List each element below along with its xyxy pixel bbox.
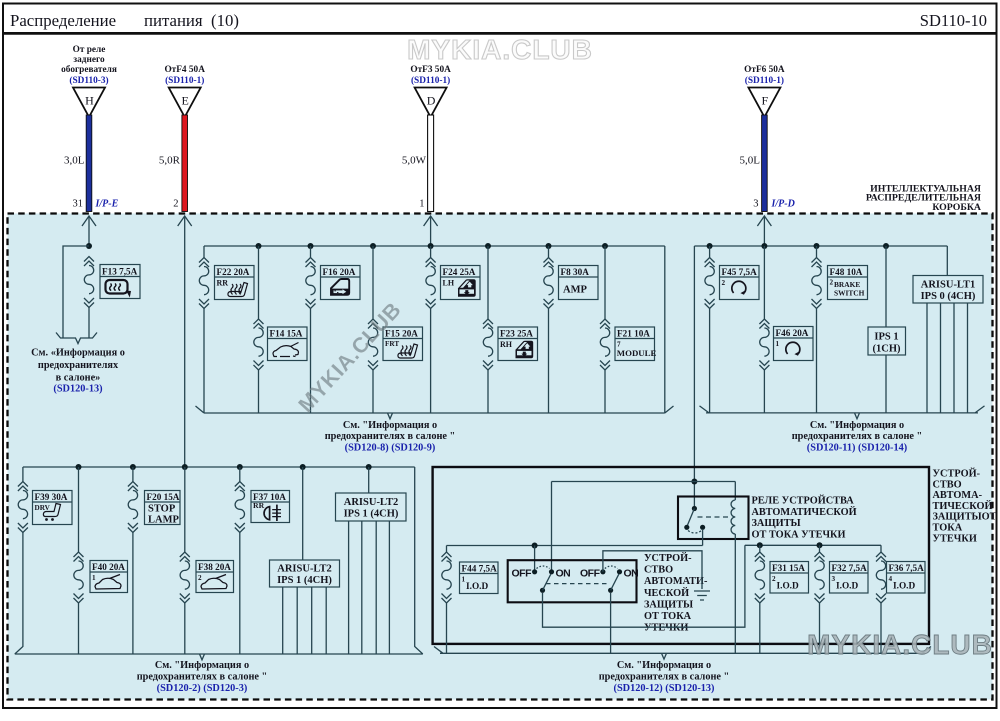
svg-text:DRV: DRV <box>35 504 51 512</box>
svg-text:ОтF4 50A: ОтF4 50A <box>164 65 205 75</box>
wire F inside box <box>763 217 765 246</box>
wire IPS1 output <box>885 355 887 413</box>
connector E label: ОтF4 50A <box>164 65 205 86</box>
fuse F21 label box <box>615 327 657 361</box>
wire 5,0R red from E <box>182 115 188 212</box>
svg-text:ТОКА: ТОКА <box>933 523 963 534</box>
svg-text:I.O.D: I.O.D <box>466 582 488 592</box>
svg-text:5,0R: 5,0R <box>159 155 181 167</box>
wire relay coil to bottom bus <box>734 534 736 653</box>
svg-text:УСТРОЙ-: УСТРОЙ- <box>933 468 981 480</box>
fuse F48 label box <box>828 266 868 300</box>
wire H inside box <box>88 217 90 246</box>
fuse F8 label box <box>559 266 599 300</box>
svg-text:ARISU-LT2: ARISU-LT2 <box>277 564 331 575</box>
svg-text:(1CH): (1CH) <box>873 344 901 355</box>
svg-text:(SD110-1): (SD110-1) <box>745 75 784 86</box>
node E feed <box>182 464 188 470</box>
svg-text:заднего: заднего <box>73 55 105 65</box>
svg-text:3,0L: 3,0L <box>64 155 85 167</box>
svg-text:FRT: FRT <box>385 340 399 348</box>
svg-text:IPS 1 (4CH): IPS 1 (4CH) <box>277 575 332 586</box>
leakage protector outer box <box>433 467 929 644</box>
ground <box>694 591 710 600</box>
fuse F44 7,5A column <box>446 546 448 654</box>
svg-text:H: H <box>85 94 94 108</box>
svg-text:OFF: OFF <box>580 568 601 580</box>
fuse F22 label box <box>215 266 255 300</box>
svg-text:LH: LH <box>443 279 455 288</box>
svg-text:F22 20A: F22 20A <box>217 267 250 277</box>
svg-text:F8 30A: F8 30A <box>561 267 590 277</box>
rear fog lamp icon <box>264 505 281 521</box>
svg-text:ЗАЩИТЫ: ЗАЩИТЫ <box>644 599 693 610</box>
svg-text:5,0L: 5,0L <box>740 155 761 167</box>
svg-text:СТВО: СТВО <box>933 479 962 490</box>
svg-text:СТВО: СТВО <box>644 565 673 576</box>
fuse F38 20A column <box>184 467 186 654</box>
fuse F44 label box <box>460 562 499 594</box>
node H junction <box>86 243 92 249</box>
svg-text:1: 1 <box>776 340 780 348</box>
fuse F16 20A column <box>310 246 312 413</box>
svg-text:(SD110-1): (SD110-1) <box>165 75 204 86</box>
svg-text:(SD120-12) (SD120-13): (SD120-12) (SD120-13) <box>614 683 715 694</box>
svg-text:1: 1 <box>92 574 96 582</box>
svg-text:См. "Информация о: См. "Информация о <box>810 420 904 431</box>
svg-text:РЕЛЕ УСТРОЙСТВА: РЕЛЕ УСТРОЙСТВА <box>752 495 855 507</box>
svg-text:(SD110-1): (SD110-1) <box>411 75 450 86</box>
fuse F13 7,5A <box>84 257 94 308</box>
svg-text:ОТ ТОКА УТЕЧКИ: ОТ ТОКА УТЕЧКИ <box>752 529 846 540</box>
svg-text:2: 2 <box>722 279 726 287</box>
connector F label: ОтF6 50A <box>744 65 785 86</box>
wire down to switch OFF 1 <box>534 546 536 572</box>
svg-text:IPS 1 (4CH): IPS 1 (4CH) <box>344 509 399 520</box>
wire switch1 output to IOD bus <box>543 545 745 627</box>
connector E triangle <box>169 88 201 118</box>
fuse F23 25A column <box>487 246 489 413</box>
svg-text:F36 7,5A: F36 7,5A <box>889 563 925 573</box>
svg-text:АВТОМА-: АВТОМА- <box>933 490 983 501</box>
svg-text:RR: RR <box>253 501 265 510</box>
svg-text:См. «Информация о: См. «Информация о <box>31 348 125 359</box>
svg-text:E: E <box>182 94 189 108</box>
svg-text:IPS 0 (4CH): IPS 0 (4CH) <box>921 291 976 302</box>
svg-text:F13 7,5A: F13 7,5A <box>102 267 138 277</box>
svg-text:ЗАЩИТЫ: ЗАЩИТЫ <box>752 518 801 529</box>
fuse F20 15A column <box>132 467 134 654</box>
svg-text:MODULE: MODULE <box>617 348 657 358</box>
svg-text:(SD120-11) (SD120-14): (SD120-11) (SD120-14) <box>807 442 907 453</box>
bottom bus of leakage box <box>434 647 931 660</box>
wire H entry arrow into box <box>82 216 96 226</box>
bus brace under F13 group <box>56 333 97 344</box>
wire F44 rail <box>447 545 703 547</box>
fuse F14 label box <box>268 327 308 361</box>
connector H label: От реле заднего обогревателя <box>61 45 117 86</box>
fuse F46 label box <box>774 327 814 361</box>
svg-text:SWITCH: SWITCH <box>834 289 865 298</box>
relay РЕЛЕ УСТРОЙСТВА АВТОМАТИЧЕСКОЙ ЗАЩИТЫ ОТ ТОКА УТЕЧКИ <box>678 497 749 540</box>
IOD bus F31/F32/F36 <box>745 544 881 546</box>
svg-text:предохранителях в салоне ": предохранителях в салоне " <box>792 431 923 442</box>
switch box УСТРОЙСТВО АВТОМАТИЧЕСКОЙ ЗАЩИТЫ ОТ ТОКА УТЕЧКИ <box>508 560 639 602</box>
svg-text:F: F <box>762 94 769 108</box>
fuse F31 label box <box>770 562 809 594</box>
label УСТРОЙСТВО АВТОМАТИЧЕСКОЙ ЗАЩИТЫ ТОКА УТЕЧКИ (right of box) <box>933 468 997 545</box>
svg-text:ARISU-LT2: ARISU-LT2 <box>344 497 398 508</box>
module ARISU-LT2 IPS 1 (4CH) lower <box>270 560 340 587</box>
fuse F15 20A column <box>372 246 374 413</box>
svg-text:AMP: AMP <box>563 285 587 296</box>
svg-text:31: 31 <box>73 199 84 210</box>
svg-text:F31 15A: F31 15A <box>772 563 805 573</box>
nodes on right top bus <box>707 243 713 249</box>
svg-text:(SD120-13): (SD120-13) <box>53 384 102 395</box>
fuse F45 label box <box>720 266 760 300</box>
wire to IPS 1 (1CH) <box>885 246 887 327</box>
svg-text:SD110-10: SD110-10 <box>920 11 987 30</box>
svg-text:D: D <box>427 94 436 108</box>
node switch feed <box>532 543 538 549</box>
relay actuation dashed link <box>698 516 730 518</box>
top bus of interior-fuse group <box>204 245 665 247</box>
fuse F22 20A column <box>203 246 205 413</box>
svg-text:2: 2 <box>830 279 834 287</box>
fuse F48 10A column <box>816 246 818 413</box>
bottom bus of lower-left fuse group <box>15 654 423 660</box>
svg-text:ARISU-LT1: ARISU-LT1 <box>921 280 975 291</box>
svg-text:F14 15A: F14 15A <box>270 329 303 339</box>
right edge wire of lower-left group <box>415 467 423 654</box>
svg-text:См. "Информация о: См. "Информация о <box>343 420 437 431</box>
wire E inside box down to lower-left bus <box>184 217 186 467</box>
fuse F16 label box <box>321 266 361 300</box>
connector F triangle <box>748 88 780 118</box>
dashed smart junction box (ИНТЕЛЛЕКТУАЛЬНАЯ РАСПРЕДЕЛИТЕЛЬНАЯ КОРОБКА) <box>8 214 993 700</box>
heated mirror icon <box>106 280 132 298</box>
wire F entry arrow into box <box>757 216 771 226</box>
svg-text:ЗАЩИТЫОТ: ЗАЩИТЫОТ <box>933 512 997 523</box>
fuse F13 label box <box>100 265 140 299</box>
wire 5,0L blue from F <box>762 115 768 212</box>
svg-text:От реле: От реле <box>73 45 106 55</box>
module IPS 1 (1CH) <box>868 327 906 355</box>
svg-text:АВТОМАТИЧЕСКОЙ: АВТОМАТИЧЕСКОЙ <box>752 506 857 518</box>
fuse F40 label box <box>90 561 128 593</box>
wire to ARISU-LT1 <box>946 246 948 276</box>
relay arm <box>686 509 694 529</box>
reference text SD120-11 SD120-14 <box>792 420 923 454</box>
relay label text <box>752 495 857 541</box>
fuse F21 10A column <box>604 246 606 413</box>
wire feed down to leakage protector <box>693 246 695 509</box>
svg-text:1: 1 <box>419 199 424 210</box>
wire left branch of F13 group <box>63 246 89 338</box>
reference text SD120-2 SD120-3 <box>137 660 268 694</box>
svg-text:F39 30A: F39 30A <box>35 492 68 502</box>
fuse F14 15A column <box>258 246 260 413</box>
svg-text:2: 2 <box>173 199 178 210</box>
top bus of lower-left fuse group <box>23 466 415 468</box>
connector D label: ОтF3 50A <box>410 65 451 86</box>
fuse F24 25A column <box>430 246 432 413</box>
svg-text:RH: RH <box>500 340 513 349</box>
relay contacts <box>684 525 689 530</box>
svg-text:F32 7,5A: F32 7,5A <box>832 563 868 573</box>
fuse F46 20A column <box>763 246 765 413</box>
svg-text:OFF: OFF <box>512 568 533 580</box>
top bus of right fuse group <box>694 245 947 247</box>
wire relay contact to F44 rail <box>702 529 704 546</box>
fuse F39 label box <box>33 491 73 525</box>
wire 3,0L blue from H <box>86 115 92 212</box>
svg-text:I.O.D: I.O.D <box>777 582 799 592</box>
relay contact dashed arc <box>688 531 702 534</box>
svg-text:F48 10A: F48 10A <box>830 267 863 277</box>
fuse F37 10A column <box>239 467 241 654</box>
fuse F31 15A column <box>759 545 761 653</box>
relay pivot <box>692 506 697 511</box>
svg-text:ТИЧЕСКОЙ: ТИЧЕСКОЙ <box>933 500 993 512</box>
fuse F20 label box <box>145 491 181 526</box>
wire feed rail to switch and relay coil <box>552 482 736 572</box>
fuse F15 label box <box>383 327 423 361</box>
wire D inside box <box>430 217 432 246</box>
svg-text:ОТ ТОКА: ОТ ТОКА <box>644 611 692 622</box>
wire switch2 OFF to ground <box>603 551 702 589</box>
wire D entry arrow into box <box>424 216 438 226</box>
svg-text:I/P-D: I/P-D <box>771 199 795 210</box>
svg-text:ОтF3 50A: ОтF3 50A <box>410 65 451 75</box>
switch label text <box>644 552 708 634</box>
svg-text:I.O.D: I.O.D <box>893 582 915 592</box>
connector H triangle <box>73 88 105 118</box>
svg-text:F45 7,5A: F45 7,5A <box>722 267 758 277</box>
bottom bus of right fuse group <box>700 406 985 419</box>
svg-text:RR: RR <box>217 279 229 288</box>
svg-text:ON: ON <box>556 568 571 580</box>
fuse F8 30A column <box>548 246 550 413</box>
svg-text:(SD110-3): (SD110-3) <box>69 75 108 86</box>
svg-text:LAMP: LAMP <box>148 515 179 526</box>
nodes on lower-left top bus <box>76 464 82 470</box>
svg-text:F21 10A: F21 10A <box>617 329 650 339</box>
svg-text:См. "Информация о: См. "Информация о <box>617 660 711 671</box>
relay coil <box>731 500 735 534</box>
svg-text:предохранителях в салоне ": предохранителях в салоне " <box>325 431 456 442</box>
svg-text:ЧЕСКОЙ: ЧЕСКОЙ <box>644 587 689 599</box>
fuse F40 20A column <box>78 467 80 654</box>
svg-text:F20 15A: F20 15A <box>147 492 180 502</box>
fuse F23 label box <box>498 327 538 361</box>
svg-text:(10): (10) <box>211 11 239 30</box>
fuse F24 label box <box>441 266 481 300</box>
fuse F36 label box <box>887 562 926 594</box>
svg-text:2: 2 <box>198 574 202 582</box>
svg-text:I/P-E: I/P-E <box>95 199 119 210</box>
svg-text:обогревателя: обогревателя <box>61 64 117 75</box>
right edge wire of interior-fuse group <box>664 246 666 413</box>
svg-text:F46 20A: F46 20A <box>776 328 809 338</box>
switch mechanical dashed link <box>546 583 607 585</box>
svg-text:УСТРОЙ-: УСТРОЙ- <box>644 552 692 564</box>
svg-text:MYKIA.CLUB: MYKIA.CLUB <box>807 629 993 660</box>
svg-text:ON: ON <box>624 568 639 580</box>
svg-text:4: 4 <box>889 575 893 583</box>
svg-text:5,0W: 5,0W <box>402 155 427 167</box>
node feed junction <box>691 479 697 485</box>
door lock icon <box>331 279 349 295</box>
svg-text:F16 20A: F16 20A <box>323 267 356 277</box>
svg-text:Распределение: Распределение <box>10 11 116 30</box>
reference text SD120-13 <box>31 348 125 395</box>
svg-text:КОРОБКА: КОРОБКА <box>932 202 981 213</box>
node F feed <box>761 243 767 249</box>
svg-text:I.O.D: I.O.D <box>836 582 858 592</box>
svg-text:ОтF6 50A: ОтF6 50A <box>744 65 785 75</box>
svg-text:MYKIA.CLUB: MYKIA.CLUB <box>407 34 593 65</box>
module ARISU-LT2 IPS 1 (4CH) upper <box>336 493 407 521</box>
svg-text:1: 1 <box>462 576 466 584</box>
wires ARISU-LT1 outputs <box>927 303 968 413</box>
svg-text:STOP: STOP <box>148 504 176 515</box>
wires ARISU-LT2 upper outputs <box>349 521 390 654</box>
fuse F38 label box <box>196 561 234 593</box>
svg-text:питания: питания <box>144 11 203 30</box>
fuse F37 label box <box>251 491 290 523</box>
svg-text:предохранителях: предохранителях <box>38 360 119 371</box>
fuse F32 label box <box>830 562 869 594</box>
svg-text:См. "Информация о: См. "Информация о <box>155 660 249 671</box>
svg-text:в салоне»: в салоне» <box>56 373 101 384</box>
wires ARISU-LT2 lower outputs <box>283 587 327 654</box>
svg-text:(SD120-8) (SD120-9): (SD120-8) (SD120-9) <box>345 442 436 453</box>
svg-text:IPS 1: IPS 1 <box>874 332 898 343</box>
reference text SD120-8 SD120-9 <box>325 420 456 454</box>
fuse F32 7,5A column <box>819 545 821 653</box>
svg-text:3: 3 <box>832 575 836 583</box>
header rule <box>3 32 997 35</box>
wire 5,0W white from D <box>428 115 434 212</box>
wire switch2 output to bottom bus <box>610 593 612 653</box>
svg-text:УТЕЧКИ: УТЕЧКИ <box>644 623 688 634</box>
svg-text:F38 20A: F38 20A <box>198 562 231 572</box>
svg-text:F40 20A: F40 20A <box>92 562 125 572</box>
svg-text:2: 2 <box>772 575 776 583</box>
reference text SD120-12 SD120-13 <box>599 660 730 694</box>
fuse F39 30A column <box>15 467 23 654</box>
node D feed <box>428 243 434 249</box>
svg-text:АВТОМАТИ-: АВТОМАТИ- <box>644 576 708 587</box>
svg-text:F23 25A: F23 25A <box>500 329 533 339</box>
bottom bus of interior-fuse group <box>196 406 674 419</box>
svg-text:УТЕЧКИ: УТЕЧКИ <box>933 533 977 544</box>
fuse F45 7,5A column <box>709 246 711 413</box>
svg-text:3: 3 <box>753 199 758 210</box>
wire to ARISU-LT2 (lower) <box>302 467 304 560</box>
fuse F36 7,5A column <box>880 545 882 653</box>
wire E entry arrow into box <box>178 216 192 226</box>
connector D triangle <box>415 88 447 118</box>
svg-text:(SD120-2) (SD120-3): (SD120-2) (SD120-3) <box>157 683 248 694</box>
nodes on top bus <box>256 243 262 249</box>
wire to ARISU-LT2 (upper) <box>368 467 370 493</box>
svg-text:предохранителях в салоне ": предохранителях в салоне " <box>137 672 268 683</box>
svg-text:F44 7,5A: F44 7,5A <box>462 564 498 574</box>
svg-text:F24 25A: F24 25A <box>443 267 476 277</box>
module ARISU-LT1 IPS 0 (4CH) <box>913 276 983 304</box>
power seat icon <box>43 504 60 521</box>
svg-text:предохранителях в салоне ": предохранителях в салоне " <box>599 672 730 683</box>
